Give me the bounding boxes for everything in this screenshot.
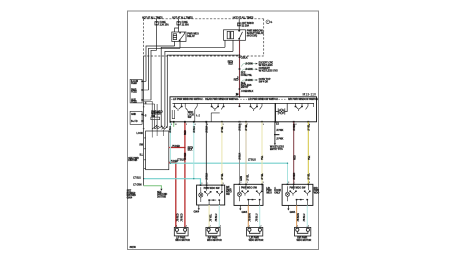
svg-text:YEL: YEL — [261, 155, 264, 160]
bulb box3 — [237, 186, 241, 201]
svg-text:REAR PWR WINDOW SWITCH: REAR PWR WINDOW SWITCH — [205, 98, 238, 101]
wire orange box3 to motor3 — [247, 205, 249, 227]
wire nested elbow D (relay K2 pin1 left down) — [161, 47, 225, 126]
motor M1 L/F power window motor — [174, 227, 188, 236]
window lock switch box B — [146, 131, 169, 170]
wire pale yellow to box3 — [261, 122, 263, 185]
fuse F21 — [177, 22, 180, 25]
svg-text:GND: GND — [131, 113, 136, 116]
svg-text:WDO MOTOR: WDO MOTOR — [175, 239, 190, 242]
switch cluster 4 (R/R) — [295, 103, 314, 111]
svg-text:30150: 30150 — [130, 246, 137, 249]
wire lt blue illum from master switch — [169, 122, 171, 163]
wire red R1 from master switch down to motor M1 — [184, 122, 186, 228]
svg-text:YEL: YEL — [308, 155, 311, 160]
svg-text:.75 BLU: .75 BLU — [303, 213, 306, 222]
svg-text:DISTRIB: DISTRIB — [128, 159, 137, 162]
wire relay K2 pin drops — [225, 40, 233, 51]
connector box A — [130, 79, 151, 103]
svg-text:LOCK: LOCK — [137, 132, 144, 135]
svg-text:M13-110: M13-110 — [303, 92, 317, 96]
option stub row 3 — [241, 80, 255, 82]
svg-text:.5 BLK: .5 BLK — [205, 126, 208, 133]
switch box 4 R/R — [282, 184, 313, 205]
wire green stub under master switch — [173, 122, 175, 127]
wire fuse2 feed — [178, 19, 180, 22]
wire red jumper box B to R1 — [169, 147, 185, 149]
svg-text:HOT AT ALL TIMES: HOT AT ALL TIMES — [233, 17, 254, 20]
svg-text:.5 PNK: .5 PNK — [276, 129, 284, 132]
wire left column — [143, 56, 145, 186]
svg-text:.5 RED/BLK: .5 RED/BLK — [241, 90, 254, 93]
pin number specks above lower boxes — [176, 182, 311, 227]
motor M4 R/R power window motor — [295, 227, 311, 236]
svg-text:.75 RED: .75 RED — [180, 213, 183, 222]
svg-text:.75 BLU: .75 BLU — [215, 213, 218, 222]
svg-text:PWR WDO SW: PWR WDO SW — [290, 186, 307, 189]
svg-text:G: G — [270, 21, 272, 24]
wire dark gray to box3 — [239, 122, 241, 185]
wire lower lt blue horizontal — [144, 179, 201, 185]
wire relay K1 pin drops — [175, 41, 180, 48]
wire pale yellow box2 to motor2 — [208, 205, 210, 227]
wire CB feed — [238, 19, 240, 23]
svg-text:RED: RED — [234, 79, 239, 82]
svg-text:RED: RED — [184, 130, 187, 135]
contacts box4 — [289, 184, 310, 205]
svg-text:BLK: BLK — [228, 63, 233, 66]
option stub row 2 — [241, 69, 255, 72]
svg-text:.75 BLU: .75 BLU — [256, 213, 259, 222]
switch box 2 R/F — [197, 185, 225, 205]
master switch bottom pins — [170, 121, 310, 123]
svg-text:ENTRY: ENTRY — [241, 86, 249, 89]
svg-text:.75 RED: .75 RED — [172, 145, 181, 148]
wire green to ground — [144, 186, 162, 189]
wire upper lt blue horizontal — [170, 162, 287, 164]
ground G904 below box2 — [198, 205, 200, 208]
svg-text:2.30 15A: 2.30 15A — [160, 24, 169, 27]
wire black to box2 — [205, 122, 207, 185]
svg-text:GRN: GRN — [240, 176, 243, 181]
wire olive to box3 — [245, 122, 247, 185]
svg-text:LT BLU: LT BLU — [133, 176, 141, 179]
svg-text:SW 4 DR: SW 4 DR — [259, 80, 269, 83]
wire lt blue drop to box4 — [287, 163, 289, 184]
svg-text:G904: G904 — [242, 211, 248, 214]
svg-text:W/ KEYLESS SYS: W/ KEYLESS SYS — [259, 70, 279, 73]
svg-text:.75 RED: .75 RED — [177, 213, 180, 222]
wire yellow to box4 — [307, 122, 309, 185]
wire labels rotated along drops — [169, 123, 311, 181]
contacts box2 — [204, 185, 223, 205]
connector circle C126 — [266, 20, 270, 24]
svg-text:C/BLK: C/BLK — [241, 57, 248, 60]
svg-text:LT BLU: LT BLU — [177, 158, 185, 161]
svg-text:WDO MOTOR: WDO MOTOR — [297, 239, 312, 242]
svg-text:WDO: WDO — [314, 192, 320, 195]
svg-text:.5 BLK: .5 BLK — [205, 173, 208, 180]
svg-text:.5 YEL: .5 YEL — [261, 173, 264, 180]
ground below box3 — [239, 205, 241, 208]
wire fuse2 to relay K1 — [175, 25, 179, 32]
wire nested elbow F (relay K2 pin3 left down) — [167, 55, 239, 126]
wire CB to relay K2 — [238, 26, 240, 30]
svg-text:.5 RED: .5 RED — [293, 172, 296, 180]
svg-text:WDO: WDO — [266, 192, 272, 195]
lock switch contacts on box B top — [152, 125, 167, 137]
svg-text:.5 PNK: .5 PNK — [276, 138, 284, 141]
wire orange box4 to motor4 — [296, 205, 298, 227]
svg-text:HOT AT ALL TIMES: HOT AT ALL TIMES — [142, 17, 163, 20]
motor M3 L/R power window motor — [247, 227, 263, 236]
pin number specks under master switch — [171, 123, 311, 126]
wire fuse1 feed — [156, 19, 158, 22]
svg-text:(4-DOOR): (4-DOOR) — [247, 34, 258, 37]
svg-text:ONLY: ONLY — [274, 192, 281, 195]
svg-text:WDO MOTOR: WDO MOTOR — [249, 239, 264, 242]
svg-text:WDO MOTOR: WDO MOTOR — [207, 239, 222, 242]
wire box B left pins — [144, 138, 146, 169]
svg-text:LT GRN: LT GRN — [133, 184, 142, 187]
fuse F2.30 — [155, 22, 158, 25]
bulb box4 — [285, 186, 289, 201]
master switch big box U1 — [170, 97, 317, 122]
svg-text:FEED: FEED — [131, 101, 137, 104]
left column pin ticks — [143, 103, 145, 129]
svg-text:LT BLU: LT BLU — [248, 158, 256, 161]
svg-text:.75 BRN: .75 BRN — [297, 213, 300, 222]
svg-text:.5 GRN: .5 GRN — [245, 62, 253, 65]
svg-text:FEED: FEED — [131, 82, 137, 85]
ground arrow G904 — [160, 189, 162, 191]
wire stub connector below lamp — [274, 122, 276, 143]
internal bus — [173, 102, 315, 104]
svg-text:G904: G904 — [194, 211, 200, 214]
svg-text:HOT AT ALL TIMES: HOT AT ALL TIMES — [172, 17, 193, 20]
svg-text:FEED: FEED — [131, 91, 137, 94]
svg-text:.5 BLU: .5 BLU — [193, 126, 196, 133]
bulb box2 — [199, 187, 203, 202]
option stub row 1 — [241, 64, 255, 67]
wire feed from column to lock switch strip — [144, 102, 157, 130]
switch box 3 L/R — [234, 184, 263, 205]
svg-text:BLK: BLK — [188, 149, 193, 152]
wire nested elbow E (relay K2 pin2 left down) — [165, 51, 233, 126]
wire nested elbow B (relay K1 pinL to box A) — [146, 46, 175, 81]
svg-text:L/R PWR WINDOW SWITCH: L/R PWR WINDOW SWITCH — [248, 98, 278, 101]
contacts box3 — [241, 184, 262, 205]
svg-text:L/F PWR WINDOW SWITCH: L/F PWR WINDOW SWITCH — [173, 98, 203, 101]
wire pale yellow to box2 — [221, 122, 223, 185]
box entry pins — [200, 184, 310, 186]
wire nested elbow A (fuse1 to box A pin1 via left) — [151, 50, 157, 100]
fuse box (dashed outline) — [143, 19, 263, 56]
svg-text:.5 YEL: .5 YEL — [247, 174, 250, 181]
wire cyan box3 to motor3 — [259, 205, 261, 227]
svg-text:ENTRY SYS: ENTRY SYS — [270, 148, 283, 151]
switch cluster 2 (rear/front) — [211, 103, 225, 121]
wire maroon to box4 — [293, 122, 295, 185]
svg-text:21 30A: 21 30A — [182, 24, 190, 27]
motor M2 R/F power window motor — [206, 227, 220, 236]
ground below box4 — [287, 205, 289, 208]
svg-text:R/R PWR WINDOW SWITCH: R/R PWR WINDOW SWITCH — [288, 98, 318, 101]
svg-text:.75 YEL: .75 YEL — [210, 213, 213, 222]
switch cluster 1 (L/F) — [174, 103, 198, 121]
svg-text:22 20A: 22 20A — [242, 25, 250, 28]
svg-text:.5 YEL: .5 YEL — [221, 173, 224, 180]
motor entry pins — [175, 227, 308, 228]
wire pale cyan box2 to motor2 — [218, 205, 220, 227]
svg-text:.5 GRN: .5 GRN — [245, 79, 253, 82]
svg-text:DISTRIB: DISTRIB — [157, 195, 166, 198]
circuit breaker CB — [238, 23, 241, 26]
connector strip on master switch feeds — [151, 117, 160, 120]
svg-text:.5 YEL: .5 YEL — [307, 173, 310, 180]
wire nested elbow C (relay K1 pinR to box A) — [149, 48, 181, 90]
svg-text:RED: RED — [294, 155, 297, 160]
svg-text:G904: G904 — [127, 197, 133, 200]
svg-text:.5 BLK: .5 BLK — [239, 153, 242, 160]
relay K2 power window safety relay — [224, 30, 246, 41]
illumination lamp in master switch — [275, 103, 287, 121]
connector box C — [130, 111, 144, 124]
wire cyan box4 to motor4 — [306, 205, 308, 227]
wire red R2 box B to motor M1 — [169, 163, 176, 228]
svg-text:G904: G904 — [290, 211, 296, 214]
wire main feed (dark red) relay K2 to master switch — [239, 40, 241, 97]
wire lt blue from master switch to lower horiz — [193, 122, 195, 179]
svg-text:.5 YEL: .5 YEL — [221, 126, 224, 133]
svg-text:B+ FD: B+ FD — [131, 120, 138, 123]
svg-text:.75 BRN: .75 BRN — [249, 213, 252, 222]
svg-text:.5 BLU: .5 BLU — [169, 126, 172, 133]
wire fuse1 down — [156, 25, 158, 50]
svg-text:PWR WDO SW: PWR WDO SW — [241, 186, 258, 189]
relay K1 power window relay — [172, 32, 186, 41]
svg-text:RELAY: RELAY — [187, 35, 195, 38]
svg-text:.5 GRN: .5 GRN — [245, 68, 253, 71]
switch cluster 3 (L/R) — [250, 103, 262, 111]
svg-text:PWR WDO SW: PWR WDO SW — [204, 187, 221, 190]
svg-text:FUSE PNL: FUSE PNL — [241, 74, 253, 77]
